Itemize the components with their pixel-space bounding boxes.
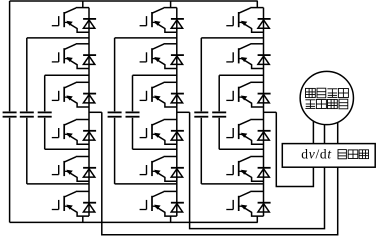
- wire: leg U node n12 tap: [27, 37, 89, 39]
- wire: leg U outer flying-cap lower lead: [26, 118, 28, 184]
- wire: leg U series rail: [88, 8, 90, 217]
- wire: leg V midpoint output bar: [177, 111, 190, 113]
- wire: leg V node n45 tap: [133, 148, 177, 150]
- wire: leg W outer flying-cap lower lead: [200, 118, 202, 184]
- transistor VU5 (IGBT, leg U cell 5): [52, 157, 89, 182]
- diode VDV4 (freewheeling diode, leg V cell 4): [171, 131, 184, 140]
- transistor VU2 (IGBT, leg U cell 2): [52, 44, 89, 69]
- wire: leg U node n56 tap: [27, 183, 89, 185]
- diode VDW4 (freewheeling diode, leg W cell 4): [258, 131, 271, 140]
- node: phase W output route: [276, 112, 313, 186]
- transistor VV2 (IGBT, leg V cell 2): [140, 44, 177, 69]
- capacitor CV1 (outer flying capacitor): [108, 111, 122, 113]
- wire: bottom DC bus: [10, 221, 258, 223]
- transistor VV5 (IGBT, leg V cell 5): [140, 157, 177, 182]
- capacitor Cd (DC-link): [3, 111, 17, 113]
- wire: leg U top stub: [82, 1, 84, 8]
- wire: leg U bottom stub: [82, 216, 84, 222]
- wire: top DC bus: [10, 0, 258, 2]
- wire: leg W series rail: [263, 8, 265, 217]
- wire: leg V node n23 tap: [133, 74, 177, 76]
- wire: leg W node n56 tap: [201, 183, 263, 185]
- wire: leg V top stub: [170, 1, 172, 8]
- diode VDW2 (freewheeling diode, leg W cell 2): [258, 55, 271, 64]
- text: motor label line 1 "gan ying huo tong": [306, 88, 349, 98]
- wire: leg W bottom stub: [256, 216, 258, 222]
- diode VDV3 (freewheeling diode, leg V cell 3): [171, 94, 184, 103]
- wire: leg W midpoint output bar: [264, 111, 277, 113]
- text: "xian zhi qi" (limiter) label: [338, 150, 369, 159]
- transistor VU6 (IGBT, leg U cell 6): [52, 191, 89, 216]
- text: motor label line 2 "bu dian dong ji": [305, 99, 347, 109]
- diode VDU2 (freewheeling diode, leg U cell 2): [83, 55, 96, 64]
- capacitor CU2 (inner flying capacitor): [38, 111, 52, 113]
- diode VDV2 (freewheeling diode, leg V cell 2): [171, 55, 184, 64]
- wire: leg W outer flying-cap upper lead: [200, 38, 202, 111]
- capacitor CU1 (outer flying capacitor): [20, 111, 34, 113]
- transistor VV6 (IGBT, leg V cell 6): [140, 191, 177, 216]
- capacitor CW1 (outer flying capacitor): [194, 111, 208, 113]
- diode VDU6 (freewheeling diode, leg U cell 6): [83, 203, 96, 212]
- transistor VW5 (IGBT, leg W cell 5): [226, 157, 263, 182]
- node: phase U output route: [102, 112, 338, 235]
- diode VDW1 (freewheeling diode, leg W cell 1): [258, 19, 271, 28]
- wire: leg U inner flying-cap lower lead: [44, 118, 46, 150]
- diode VDU1 (freewheeling diode, leg U cell 1): [83, 19, 96, 28]
- diode VDV6 (freewheeling diode, leg V cell 6): [171, 203, 184, 212]
- transistor VW4 (IGBT, leg W cell 4): [226, 120, 263, 145]
- transistor VW2 (IGBT, leg W cell 2): [226, 44, 263, 69]
- wire: leg U outer flying-cap upper lead: [26, 38, 28, 111]
- wire: leg U node n45 tap: [45, 148, 89, 150]
- transistor VV4 (IGBT, leg V cell 4): [140, 120, 177, 145]
- capacitor CV2 (inner flying capacitor): [126, 111, 140, 113]
- wire: leg V outer flying-cap upper lead: [114, 38, 116, 111]
- wire: leg V inner flying-cap lower lead: [132, 118, 134, 150]
- diode VDV5 (freewheeling diode, leg V cell 5): [171, 168, 184, 177]
- wire: leg W top stub: [256, 1, 258, 8]
- wire: leg W inner flying-cap lower lead: [218, 118, 220, 150]
- wire: leg V inner flying-cap upper lead: [132, 75, 134, 111]
- capacitor CW2 (inner flying capacitor): [212, 111, 226, 113]
- dv/dt limiter box: [282, 144, 375, 168]
- diode VDW6 (freewheeling diode, leg W cell 6): [258, 203, 271, 212]
- transistor VV3 (IGBT, leg V cell 3): [140, 82, 177, 107]
- diode VDU5 (freewheeling diode, leg U cell 5): [83, 168, 96, 177]
- wire: leg V outer flying-cap lower lead: [114, 118, 116, 184]
- wire: leg W inner flying-cap upper lead: [218, 75, 220, 111]
- node: phase V output route: [190, 112, 325, 228]
- wire: leg U inner flying-cap upper lead: [44, 75, 46, 111]
- transistor VU4 (IGBT, leg U cell 4): [52, 120, 89, 145]
- transistor VU3 (IGBT, leg U cell 3): [52, 82, 89, 107]
- wire: leg V bottom stub: [170, 216, 172, 222]
- diode VDU4 (freewheeling diode, leg U cell 4): [83, 131, 96, 140]
- wire: DC-link bus left vertical (upper): [9, 1, 11, 111]
- wire: leg U midpoint output bar: [89, 111, 102, 113]
- transistor VU1 (IGBT, leg U cell 1): [52, 8, 89, 33]
- wire: leg V node n56 tap: [115, 183, 177, 185]
- wire: leg U node n23 tap: [45, 74, 89, 76]
- wire: leg W node n12 tap: [201, 37, 263, 39]
- diode VDW5 (freewheeling diode, leg W cell 5): [258, 168, 271, 177]
- wire: leg V series rail: [176, 8, 178, 217]
- transistor VV1 (IGBT, leg V cell 1): [140, 8, 177, 33]
- diode VDU3 (freewheeling diode, leg U cell 3): [83, 94, 96, 103]
- diode VDV1 (freewheeling diode, leg V cell 1): [171, 19, 184, 28]
- transistor VW1 (IGBT, leg W cell 1): [226, 8, 263, 33]
- wire: leg W node n23 tap: [219, 74, 263, 76]
- wire: DC-link bus left vertical (lower): [9, 118, 11, 223]
- diode VDW3 (freewheeling diode, leg W cell 3): [258, 94, 271, 103]
- wire: leg V node n12 tap: [115, 37, 177, 39]
- svg-text:dv/dt: dv/dt: [301, 147, 332, 162]
- transistor VW6 (IGBT, leg W cell 6): [226, 191, 263, 216]
- wire: leg W node n45 tap: [219, 148, 263, 150]
- motor M (induction or synchronous motor): [300, 71, 353, 124]
- transistor VW3 (IGBT, leg W cell 3): [226, 82, 263, 107]
